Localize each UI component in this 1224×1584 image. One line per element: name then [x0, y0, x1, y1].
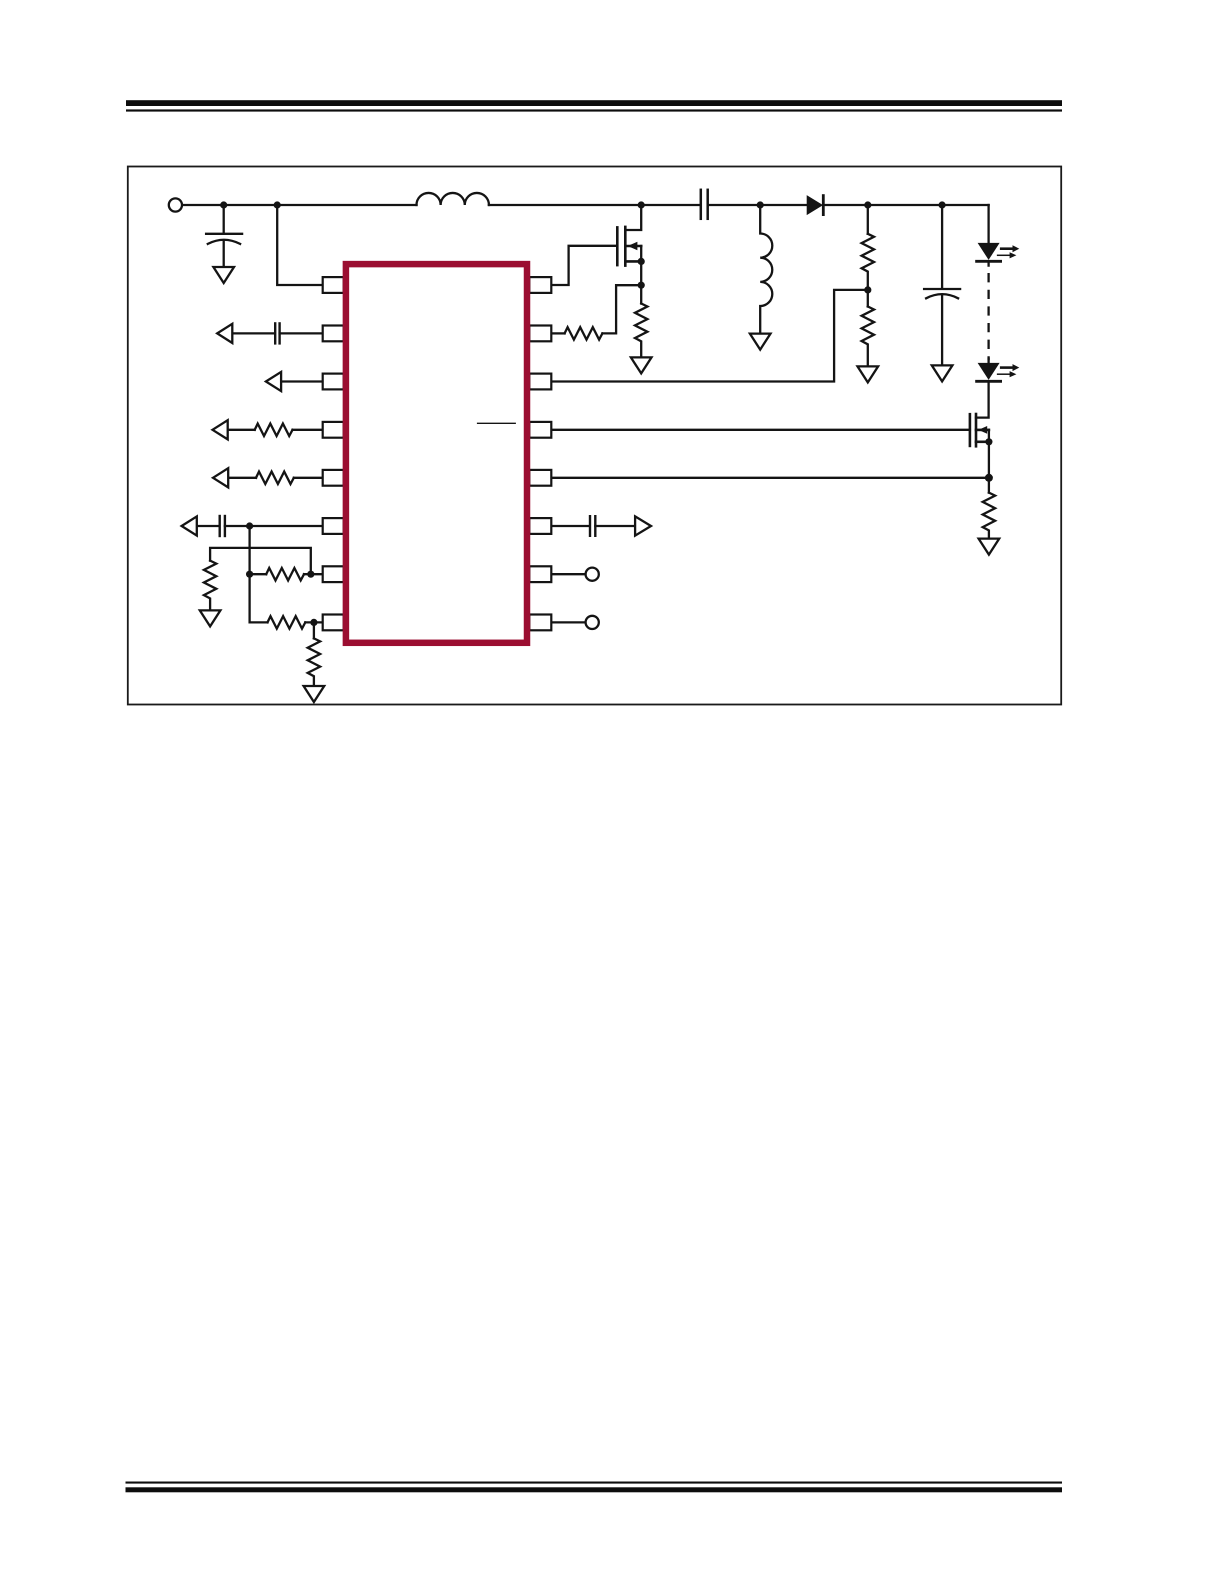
IC pin boxes — [323, 277, 552, 630]
node Q2 source junction — [985, 474, 993, 482]
header rule thin — [126, 109, 1062, 111]
wire loop to grounded resistor — [210, 548, 311, 574]
resistor Q1 source sense — [635, 304, 647, 358]
ground C1 — [213, 267, 234, 283]
pin box L6 — [323, 518, 344, 534]
port arrow pin L6 — [182, 516, 197, 535]
wire inductor to SW node — [489, 204, 699, 206]
ground L8 resistor — [304, 686, 325, 702]
footer rule thin — [126, 1482, 1063, 1484]
wire pin L4 — [228, 429, 323, 431]
pin box L8 — [323, 615, 344, 631]
wire pin R1 to Q1 gate — [552, 246, 617, 285]
transistor Q2 — [970, 414, 989, 446]
node pin L8 — [310, 619, 317, 626]
wire pin L5 — [228, 477, 323, 479]
wire pin L6 arrow to capacitor — [197, 525, 219, 527]
pin box L5 — [323, 470, 344, 486]
ground C3 — [932, 365, 953, 381]
footer rule thick — [126, 1487, 1063, 1492]
wire LED2 cathode to Q2 drain — [976, 381, 989, 417]
output port arrow pin R6 — [635, 516, 651, 535]
resistor R2 (pin R2 series) — [552, 332, 565, 334]
pin box L2 — [323, 326, 344, 342]
resistor pin L8 — [305, 621, 322, 623]
pin R7 test point — [552, 573, 586, 575]
pin box L1 — [323, 277, 344, 293]
resistor pin L4 — [255, 424, 293, 436]
ground loop resistor — [200, 610, 221, 626]
wire capacitor to output arrow — [595, 525, 634, 527]
wire to pin L1 — [277, 205, 323, 285]
ground divider — [858, 366, 879, 382]
dashed LED string wire — [987, 274, 989, 359]
resistor L8 to ground — [313, 622, 315, 638]
wire diode to output — [823, 204, 988, 206]
wire capacitor to pin L6 — [225, 525, 323, 527]
port arrow pin L5 — [213, 468, 228, 487]
node SW junction — [638, 201, 645, 208]
node Q1 source stub — [638, 258, 645, 265]
port arrow pin L2 — [217, 324, 232, 343]
input terminal — [169, 198, 182, 211]
pin R8 test point — [552, 621, 586, 623]
LED D3 — [987, 359, 989, 364]
transistor Q1 — [617, 227, 641, 266]
LED D2 light arrows — [998, 245, 1020, 258]
wire R2 to source node — [602, 285, 637, 333]
resistor divider top — [867, 205, 869, 234]
pin box L3 — [323, 374, 344, 390]
wire Q1 body/source rail — [640, 246, 642, 304]
ground L2 — [750, 334, 771, 350]
pin box L4 — [323, 422, 344, 438]
pin label overline (SHDN) — [477, 422, 516, 424]
node pin L7 left — [246, 571, 253, 578]
node VIN junction C1 — [220, 201, 227, 208]
node C3 — [939, 201, 946, 208]
resistor Q2 source — [983, 493, 995, 539]
figure frame — [128, 167, 1061, 705]
pin box R6 — [529, 518, 551, 534]
wire pin L3 — [281, 380, 323, 382]
ground Q1 sense — [631, 357, 652, 373]
inductor L2 to ground — [760, 205, 772, 333]
wire pin R4 to Q2 gate — [552, 429, 970, 431]
wire node A down — [250, 526, 268, 622]
pin box R1 — [529, 277, 551, 293]
wire pin R6 to capacitor — [552, 525, 590, 527]
wire Q2 body/source rail — [988, 430, 990, 493]
LED D2 — [978, 243, 1000, 260]
wire pin L2 arrow to capacitor — [232, 332, 274, 334]
capacitor C1 — [206, 205, 242, 267]
resistor pin L5 — [256, 472, 294, 484]
node A junction pin L6 — [246, 522, 253, 529]
pin box R5 — [529, 470, 551, 486]
node Q1 source junction — [638, 282, 645, 289]
pin box L7 — [323, 566, 344, 582]
port arrow pin L4 — [213, 420, 228, 439]
pin box R3 — [529, 374, 551, 390]
node divider tap — [864, 286, 871, 293]
wire SW down to Q1 drain — [625, 205, 641, 230]
pin box R8 — [529, 615, 551, 631]
port arrow pin L3 — [266, 372, 281, 391]
capacitor C3 output — [924, 205, 960, 365]
node pin L7 right — [307, 571, 314, 578]
pin box R4 — [529, 422, 551, 438]
resistor to ground (loop) — [204, 561, 216, 611]
capacitor pin L6 — [220, 516, 225, 536]
wire output corner to LED1 — [987, 205, 989, 243]
resistor pin L7 — [250, 573, 323, 575]
wire pin R5 to Q2 source — [552, 477, 989, 479]
wire tap to pin R3 — [552, 290, 868, 382]
LED D3 light arrows — [998, 364, 1020, 377]
IC U1 body — [346, 264, 527, 643]
wire input to inductor — [182, 204, 416, 206]
wire capacitor to pin L2 — [280, 332, 323, 334]
node L2 branch — [757, 201, 764, 208]
capacitor pin R6 — [590, 516, 595, 536]
ground Q2 — [979, 539, 1000, 555]
resistor divider bottom — [862, 307, 874, 367]
capacitor pin L2 — [275, 323, 279, 343]
inductor L1 — [417, 193, 489, 205]
capacitor C2 coupling — [701, 190, 708, 219]
pin box R7 — [529, 566, 551, 582]
node divider top — [864, 201, 871, 208]
wire C2 to diode — [708, 204, 808, 206]
node Q2 source stub — [985, 438, 992, 445]
diode D1 — [808, 197, 822, 214]
header rule thick — [126, 100, 1062, 106]
pin box R2 — [529, 326, 551, 342]
node junction to pin 1 — [274, 201, 281, 208]
